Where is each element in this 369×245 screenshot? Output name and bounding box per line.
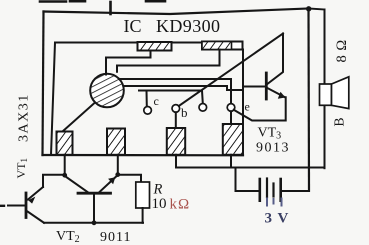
svg-text:9013: 9013 (256, 141, 290, 156)
wire: diagonal blob to pad 1 (63, 103, 96, 132)
battery right lead (281, 190, 309, 192)
transistor VT3 collector (267, 34, 283, 85)
battery BT left lead (236, 168, 259, 192)
battery plate 4 long (279, 179, 282, 201)
speaker B cone (332, 77, 349, 109)
wire: right rail from node to battery positive (307, 9, 310, 191)
wire: stub to middle terminal (201, 91, 204, 104)
speaker B coil box (320, 84, 332, 105)
wire: R bottom lead to bottom rail (142, 208, 144, 223)
transistor VT1 base bar (25, 193, 28, 218)
transistor VT2 collector to junction 1 (66, 177, 88, 193)
transistor VT3 base bar (265, 73, 268, 99)
wire: stub b circle to pad 3 (175, 112, 177, 128)
svg-text:3AX31: 3AX31 (17, 93, 32, 142)
wire: stub e circle to pad 4 (230, 111, 232, 124)
IC chip pad A (top, hatched) (138, 42, 172, 51)
node junction dot 1 (62, 173, 67, 178)
battery plate blue artifacts (267, 199, 282, 206)
node A junction dot top right (306, 6, 311, 11)
transistor VT2 base bar (78, 192, 111, 195)
svg-text:VT2: VT2 (56, 229, 80, 245)
wire: pad B vertical column (242, 50, 244, 125)
svg-text:10: 10 (152, 196, 167, 212)
terminal e circle (227, 104, 235, 112)
wire: trace 1 from blob top to pad A (106, 51, 151, 75)
svg-text:VT1: VT1 (14, 158, 29, 179)
wire: inner board left edge (51, 43, 55, 156)
IC pad 3 (bottom, hatched) (167, 128, 185, 155)
wire: bottom rail VT1 collector to R bottom (44, 222, 143, 224)
svg-text:B: B (332, 117, 347, 126)
svg-text:VT3: VT3 (258, 126, 282, 142)
svg-text:kΩ: kΩ (170, 197, 191, 213)
wire: trace 3 from blob to terminal e (119, 79, 231, 104)
node junction dot 2 (115, 172, 120, 177)
battery plate 1 long (258, 179, 261, 201)
wire: VT3 base lead (243, 86, 265, 88)
node VT2 base junction dot (92, 220, 97, 225)
wire: VT1 emitter up and to junction 1 (43, 175, 65, 187)
svg-text:8 Ω: 8 Ω (334, 39, 350, 62)
wire: trace 2 from blob to pad B (117, 50, 220, 72)
wire: pad 4 stub down to return wire (230, 155, 232, 168)
wire: long diagonal from terminal b to VT3 collector (179, 34, 283, 107)
resistor R body (136, 182, 150, 208)
IC pad 2 (bottom, hatched) (107, 129, 125, 155)
transistor VT1 collector (28, 212, 45, 223)
wire: trace 4 from blob to VT3 base column (124, 86, 244, 90)
wire: board outer bottom edge (43, 154, 244, 157)
wire: board outer left edge (43, 12, 44, 156)
wire: pad 1 stub down to junction (64, 155, 66, 174)
wire: VT3 emitter return to terminal e (234, 97, 286, 120)
svg-text:c: c (154, 94, 159, 108)
svg-text:KD9300: KD9300 (156, 16, 220, 36)
svg-text:3 V: 3 V (265, 211, 290, 227)
wire: pad 3 stub down to return wire (175, 155, 177, 168)
svg-text:b: b (181, 105, 188, 120)
transistor VT2 emitter with arrow to junction 2 (100, 176, 117, 192)
wire: lower horizontal return wire (176, 167, 325, 169)
wire: inner board top edge (55, 42, 243, 44)
wire: board outer top edge (44, 9, 309, 15)
IC chip pad B (top, hatched) (202, 42, 243, 50)
wire: stub to terminal c (146, 91, 148, 107)
wire: speaker upper lead (324, 10, 326, 85)
wire: junction 2 to resistor R top (119, 175, 141, 182)
IC pad 4 (bottom, hatched) (223, 124, 243, 155)
scan artifact dash left edge (0, 205, 4, 207)
IC die blob (hatched circle) U1 KD9300 (90, 74, 124, 108)
transistor VT1 emitter with arrow (28, 187, 43, 200)
wire: trace 5 bridge c to middle terminal (139, 90, 202, 92)
svg-text:IC: IC (124, 16, 142, 36)
scan artifact dashes top edge (40, 1, 165, 14)
IC pad 1 (bottom, hatched) (57, 132, 73, 155)
wire: VT2 base down to bottom rail (93, 195, 95, 223)
svg-text:9011: 9011 (100, 230, 131, 245)
wire: top edge extension to speaker (309, 9, 325, 10)
transistor VT3 emitter with arrow (267, 88, 285, 97)
terminal b circle (172, 105, 180, 113)
svg-text:e: e (245, 100, 250, 114)
wire: pad 2 stub down to junction (117, 155, 119, 173)
middle terminal circle (199, 104, 207, 112)
terminal c circle (144, 107, 152, 115)
wire: speaker lower lead (324, 105, 326, 168)
wire: VT1 base lead to touch point (8, 205, 25, 207)
battery plate 2 (266, 179, 268, 198)
battery plate 3 (272, 184, 274, 197)
